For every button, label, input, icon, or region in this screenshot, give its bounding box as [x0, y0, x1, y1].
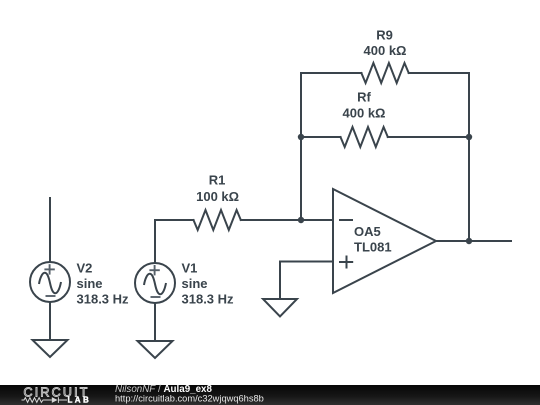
resistor Rf: [341, 127, 388, 147]
wire V2 bottom: [49, 302, 51, 340]
svg-text:V2: V2: [77, 260, 93, 275]
op-amp OA5 triangle: [333, 189, 436, 293]
svg-text:TL081: TL081: [354, 240, 392, 255]
node at inverting input: [298, 217, 304, 223]
wire R9 left lead: [301, 72, 361, 74]
V2 minus sign: [46, 295, 56, 297]
wire V1 top vertical: [154, 220, 156, 263]
wire feedback left vertical: [300, 73, 302, 220]
wire Rf left lead: [301, 136, 341, 138]
resistor R1: [194, 210, 241, 230]
svg-text:V1: V1: [182, 260, 198, 275]
V2 sine squiggle: [39, 273, 61, 293]
wire V2 top stub: [49, 198, 51, 262]
ground under V2: [33, 340, 68, 357]
op-amp plus pin symbol: [339, 256, 353, 269]
wire V1 bottom: [154, 303, 156, 341]
svg-text:OA5: OA5: [354, 224, 381, 239]
op-amp minus pin symbol: [339, 219, 353, 221]
V1 minus sign: [151, 296, 161, 298]
svg-text:LAB: LAB: [68, 395, 92, 404]
node at output: [466, 238, 472, 244]
wire R1 left lead: [155, 219, 194, 221]
wire R1 right lead to op-amp inverting input: [241, 219, 333, 221]
node at Rf right: [466, 134, 472, 140]
ground under V1: [138, 341, 173, 358]
wire op-amp noninverting input horizontal: [280, 261, 333, 263]
wire noninverting input to ground vertical: [279, 262, 281, 300]
svg-text:318.3 Hz: 318.3 Hz: [77, 292, 130, 307]
V1 plus sign: [149, 265, 159, 275]
V2 plus sign: [44, 264, 54, 274]
svg-text:318.3 Hz: 318.3 Hz: [182, 292, 235, 307]
voltage source V1 circle: [135, 263, 175, 303]
wire R9 right lead: [409, 72, 469, 74]
wire output: [436, 240, 511, 242]
node at Rf left: [298, 134, 304, 140]
ground at op-amp noninverting input: [263, 299, 297, 317]
svg-text:400 kΩ: 400 kΩ: [364, 43, 407, 58]
svg-text:sine: sine: [77, 276, 103, 291]
svg-text:sine: sine: [182, 276, 208, 291]
svg-text:400 kΩ: 400 kΩ: [343, 105, 386, 120]
svg-text:100 kΩ: 100 kΩ: [196, 189, 239, 204]
CircuitLab logo squiggle and diode: [22, 397, 68, 403]
voltage source V2 circle: [30, 262, 70, 302]
V1 sine squiggle: [144, 274, 166, 294]
svg-text:R9: R9: [376, 27, 393, 42]
resistor R9: [361, 63, 408, 83]
svg-text:R1: R1: [209, 173, 226, 188]
svg-text:Rf: Rf: [357, 89, 371, 104]
wire Rf right lead: [388, 136, 469, 138]
svg-text:http://circuitlab.com/c32wjqwq: http://circuitlab.com/c32wjqwq6hs8b: [115, 394, 264, 404]
wire feedback right vertical: [468, 73, 470, 241]
